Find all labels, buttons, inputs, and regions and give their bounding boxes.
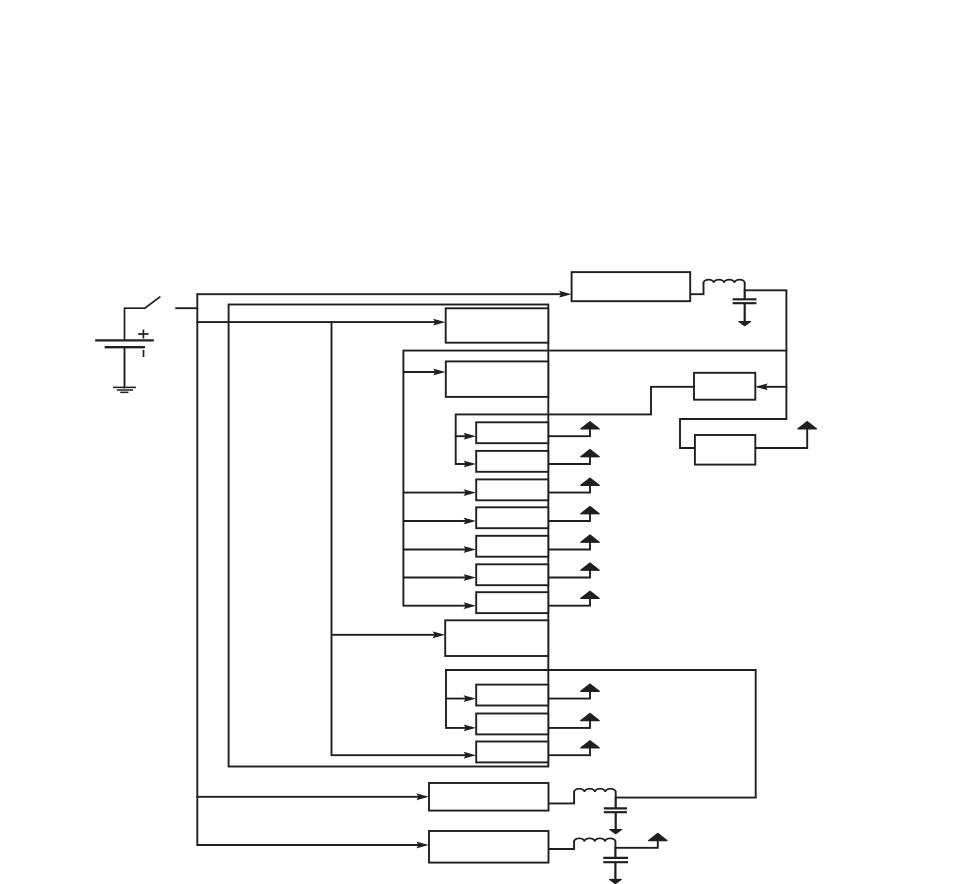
arrowhead into stack 1 [464, 433, 476, 440]
arrowhead into block A [433, 319, 445, 326]
block G3 [476, 742, 548, 763]
block stack 1 [476, 422, 548, 443]
wire stack box 1 output [548, 429, 590, 436]
arrowhead into F1 [416, 793, 428, 800]
wire L2 node to loop rail [616, 792, 756, 798]
arrowhead into block E8 [433, 631, 445, 638]
power rail arrow stack 5 [581, 535, 599, 542]
power rail arrow stack 1 [581, 422, 599, 429]
wire block G2 output [548, 721, 590, 728]
block D [695, 435, 755, 465]
battery BT1 negative plate [106, 346, 144, 348]
arrowhead into stack 3 [464, 489, 476, 496]
block G1 [476, 685, 548, 706]
block stack 6 [476, 564, 548, 585]
arrowhead into stack 5 [464, 546, 476, 553]
wire block C output to stack boxes 1-2 [456, 387, 694, 464]
battery BT1 positive plate [96, 339, 152, 341]
wire branch V3 to block E8 [332, 634, 436, 636]
switch S1 (open blade) [125, 297, 160, 340]
ground arrow under C2 [610, 830, 622, 834]
wire branch V4 to stack box 5 [403, 549, 468, 551]
inductor L1 [704, 280, 745, 283]
wire stack box 3 output [548, 485, 590, 492]
battery BT1 minus label [143, 351, 145, 356]
inductor L3 [574, 838, 615, 841]
wire F1 box output to inductor L2 [549, 792, 575, 803]
wire L3 node to power arrow [615, 841, 657, 848]
arrowhead into block B [433, 369, 445, 376]
block stack 4 [476, 507, 548, 528]
power rail arrow G1 [581, 684, 599, 691]
wire branch to G1 [446, 698, 468, 700]
wire top converter output to inductor L1 [690, 283, 703, 294]
ground arrow under C3 [610, 879, 622, 883]
wire branch to stack box 1 [456, 435, 468, 437]
wire branch V4 to block B [403, 371, 435, 373]
power rail arrow stack 4 [581, 507, 599, 514]
arrowhead into stack 4 [464, 518, 476, 525]
wire G bracket to G2 [446, 670, 468, 728]
power rail arrow G2 [581, 713, 599, 720]
block G2 [476, 714, 548, 735]
wire H1 top rail to top converter [197, 293, 564, 295]
capacitor C2 [605, 798, 626, 830]
wire right rail into block C [758, 386, 786, 388]
block A [446, 308, 549, 342]
block stack 3 [476, 479, 548, 500]
block E8 [445, 620, 548, 656]
wire branch V4 to stack box 6 [403, 577, 468, 579]
battery BT1 plus label [139, 330, 148, 337]
arrowhead into stack 2 [464, 461, 476, 468]
wire mid rail and bus V4 to stack [403, 351, 786, 606]
arrowhead into F2 [416, 842, 428, 849]
power rail arrow F2 [649, 833, 667, 840]
arrowhead into block C [755, 383, 767, 390]
arrowhead into G2 [464, 725, 476, 732]
wire block D output [755, 429, 807, 448]
power rail arrow stack 7 [581, 591, 599, 598]
wire stack box 4 output [548, 514, 590, 521]
wire switch to main bus [176, 307, 197, 309]
block stack 7 [476, 592, 548, 613]
wire loop F1 output up to G bracket [446, 670, 756, 798]
block F1 filter driver [429, 783, 549, 811]
capacitor C1 [734, 290, 756, 321]
arrowhead into stack 6 [464, 574, 476, 581]
arrowhead into G3 [464, 752, 476, 759]
wire branch V1 to filter F1 [197, 796, 418, 798]
block F2 filter driver [429, 831, 549, 863]
power rail arrow stack 3 [581, 478, 599, 485]
wire rectangle bus V2 loop [229, 305, 549, 767]
wire bus V3 down to block G3 [332, 322, 469, 755]
power rail arrow stack 2 [581, 450, 599, 457]
wire branch V4 to stack box 4 [403, 520, 468, 522]
capacitor C3 [604, 848, 627, 878]
block stack 5 [476, 536, 548, 557]
ground symbol [114, 387, 135, 392]
wire stack box 5 output [548, 542, 590, 549]
wire L1 to right rail down to block D [680, 283, 786, 448]
arrowhead into top converter [559, 291, 571, 298]
wire H3 into block A [197, 321, 435, 323]
wire battery negative to ground [124, 347, 126, 387]
ground arrow under C1 [739, 322, 751, 326]
inductor L2 [574, 789, 616, 792]
block T top converter [572, 272, 691, 301]
power rail arrow for block D [798, 422, 816, 429]
block B [446, 361, 549, 397]
wire F2 box output to inductor L3 [549, 842, 575, 849]
block stack 2 [476, 451, 548, 472]
wire branch V4 to stack box 3 [403, 492, 468, 494]
wire stack box 7 output [548, 598, 590, 605]
wire bus V1 left rail down to bottom filter [197, 294, 418, 845]
arrowhead into G1 [464, 695, 476, 702]
wire stack box 6 output [548, 570, 590, 577]
wire block G1 output [548, 691, 590, 698]
arrowhead into stack 7 [464, 602, 476, 609]
wire stack box 2 output [548, 457, 590, 464]
power rail arrow G3 [581, 741, 599, 748]
wire block G3 output [548, 748, 590, 755]
power rail arrow stack 6 [581, 563, 599, 570]
block C [694, 373, 755, 400]
